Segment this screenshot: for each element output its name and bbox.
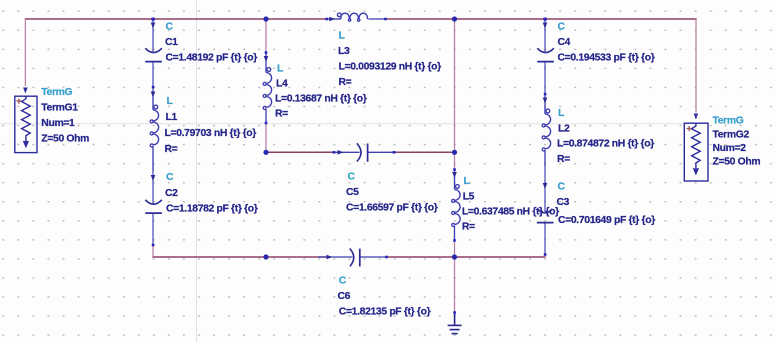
node junction top-L4	[263, 16, 268, 21]
svg-text:C=1.66597 pF {t} {o}: C=1.66597 pF {t} {o}	[346, 203, 438, 214]
svg-text:L: L	[277, 64, 284, 75]
svg-text:C=1.48192 pF {t} {o}: C=1.48192 pF {t} {o}	[166, 53, 258, 64]
svg-text:TermG1: TermG1	[41, 103, 78, 114]
wire L5 column drop	[454, 19, 456, 170]
svg-text:R=: R=	[557, 154, 570, 165]
svg-text:C=0.194533 pF {t} {o}: C=0.194533 pF {t} {o}	[558, 53, 655, 64]
svg-text:Z=50 Ohm: Z=50 Ohm	[41, 134, 89, 145]
wire C3 bottom stub	[544, 255, 546, 258]
svg-text:L=0.874872 nH {t} {o}: L=0.874872 nH {t} {o}	[557, 139, 654, 150]
svg-text:C5: C5	[346, 187, 359, 198]
capacitor C3	[544, 166, 546, 255]
node junction bottom-L5col	[452, 254, 457, 259]
svg-text:L=0.79703 nH {t} {o}: L=0.79703 nH {t} {o}	[165, 128, 257, 139]
svg-text:TermG2: TermG2	[713, 130, 750, 141]
svg-text:TermG: TermG	[713, 116, 744, 127]
svg-text:L1: L1	[166, 112, 178, 123]
svg-text:R=: R=	[165, 144, 178, 155]
wire L4 top stub	[265, 19, 267, 53]
svg-text:Z=50 Ohm: Z=50 Ohm	[713, 157, 761, 168]
inductor L5	[452, 170, 461, 241]
wire TermG2 drop	[695, 19, 697, 113]
inductor L4	[263, 53, 272, 124]
svg-text:Num=2: Num=2	[713, 143, 747, 154]
capacitor C1	[152, 19, 154, 90]
term TermG2	[684, 123, 708, 181]
svg-text:+: +	[16, 96, 21, 106]
svg-text:C: C	[348, 172, 356, 183]
wire L4 bottom stub	[265, 123, 267, 152]
inductor L2	[542, 96, 551, 166]
node junction mid-L5col	[452, 150, 457, 155]
ground	[448, 313, 462, 334]
node junction mid-L4	[263, 150, 268, 155]
svg-text:L: L	[558, 108, 565, 119]
svg-text:L: L	[464, 176, 471, 187]
svg-text:C: C	[339, 276, 347, 287]
capacitor C2	[152, 172, 154, 246]
svg-text:C6: C6	[338, 291, 351, 302]
svg-text:C3: C3	[557, 197, 570, 208]
capacitor C4	[544, 19, 546, 96]
svg-text:C4: C4	[558, 37, 571, 48]
svg-text:C=1.18782 pF {t} {o}: C=1.18782 pF {t} {o}	[166, 204, 258, 215]
svg-text:R=: R=	[275, 109, 288, 120]
wire C2 bottom stub	[152, 245, 154, 257]
wire ground stub	[454, 257, 456, 313]
svg-text:L4: L4	[276, 79, 288, 90]
wire TermG1 drop	[24, 19, 26, 86]
svg-text:L: L	[167, 96, 174, 107]
wire top bus	[25, 18, 328, 20]
node junction top-L5col	[452, 16, 457, 21]
svg-text:L2: L2	[558, 124, 570, 135]
svg-text:C1: C1	[165, 37, 178, 48]
capacitor C5	[334, 151, 394, 153]
svg-text:C2: C2	[165, 188, 178, 199]
wire bottom row	[152, 256, 326, 258]
svg-text:C=1.82135 pF {t} {o}: C=1.82135 pF {t} {o}	[339, 307, 431, 318]
inductor L3	[327, 13, 386, 21]
wire L5 bottom stub	[454, 241, 456, 258]
inductor L1	[150, 90, 159, 172]
svg-text:R=: R=	[462, 222, 475, 233]
svg-text:L5: L5	[463, 192, 475, 203]
page boundary faint horizontal line	[0, 123, 688, 125]
page boundary faint vertical line	[196, 0, 198, 342]
svg-text:Num=1: Num=1	[41, 118, 75, 129]
svg-text:L: L	[339, 31, 346, 42]
svg-text:L=0.13687 nH {t} {o}: L=0.13687 nH {t} {o}	[275, 94, 367, 105]
svg-text:L3: L3	[338, 46, 350, 57]
wire middle row	[266, 151, 336, 153]
svg-text:TermG: TermG	[41, 87, 72, 98]
svg-text:L=0.0093129 nH {t} {o}: L=0.0093129 nH {t} {o}	[339, 62, 442, 73]
capacitor C6	[318, 256, 387, 258]
svg-text:C: C	[166, 22, 174, 33]
svg-text:R=: R=	[339, 77, 352, 88]
svg-text:C: C	[166, 172, 174, 183]
svg-text:C=0.701649 pF {t} {o}: C=0.701649 pF {t} {o}	[558, 215, 655, 226]
svg-text:C: C	[558, 22, 566, 33]
node junction bottom-L4	[263, 254, 268, 259]
svg-text:C: C	[558, 182, 566, 193]
svg-text:+: +	[687, 124, 692, 134]
term TermG1	[15, 96, 37, 152]
